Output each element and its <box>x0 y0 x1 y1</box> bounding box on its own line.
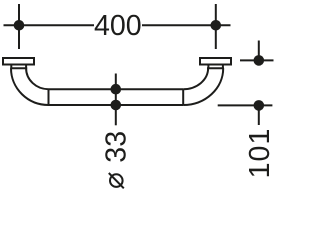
svg-text:400: 400 <box>94 10 142 42</box>
dimension 101 top line <box>240 59 274 61</box>
right collar line <box>207 67 224 69</box>
left wall plate <box>3 58 34 65</box>
dimension 400 line right segment <box>142 24 231 26</box>
dimension 400 right extension line <box>215 4 217 49</box>
diameter symbol slash <box>109 173 124 188</box>
dimension 400 line left segment <box>4 24 95 26</box>
dimension 101 top extension stub <box>258 41 260 61</box>
svg-text:101: 101 <box>244 128 276 179</box>
right wall plate <box>200 58 231 65</box>
right neck lines <box>208 65 223 69</box>
svg-text:33: 33 <box>100 131 132 163</box>
dimension 101 bottom dot <box>253 100 264 111</box>
dimension 101 bottom line <box>218 104 273 106</box>
right bend outer arc <box>183 68 223 105</box>
left bend inner arc <box>26 68 48 89</box>
dimension 400 left extension line <box>18 4 20 49</box>
dimension 400 right dot <box>211 20 222 31</box>
left bend outer arc <box>11 68 49 105</box>
diameter symbol circle <box>110 174 123 187</box>
right seam <box>182 89 184 105</box>
dimension 400 left dot <box>14 20 25 31</box>
diameter 33 top dot <box>111 84 122 95</box>
right bend inner arc <box>183 68 208 89</box>
left collar line <box>10 67 27 69</box>
left seam <box>48 89 50 105</box>
diameter 33 vertical line <box>115 74 117 126</box>
dimension 101 top dot <box>253 55 264 66</box>
diameter 33 bottom dot <box>111 100 122 111</box>
dimension 101 bottom extension stub <box>258 105 260 125</box>
tube top line <box>49 88 184 90</box>
left neck lines <box>11 65 26 69</box>
tube bottom line <box>49 104 184 106</box>
